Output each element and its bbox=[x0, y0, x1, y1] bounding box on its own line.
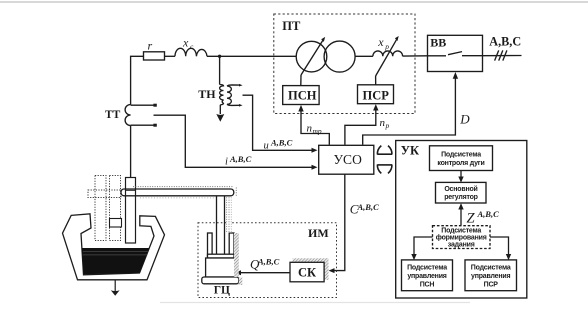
svg-text:р: р bbox=[384, 42, 389, 51]
svg-text:x: x bbox=[377, 35, 384, 49]
svg-text:А,В,С: А,В,С bbox=[489, 35, 521, 49]
svg-text:УК: УК bbox=[401, 143, 419, 157]
svg-text:r: r bbox=[148, 39, 153, 53]
svg-text:Z: Z bbox=[467, 211, 476, 227]
svg-text:задания: задания bbox=[448, 242, 475, 249]
svg-text:Основной: Основной bbox=[444, 185, 477, 193]
svg-text:ТТ: ТТ bbox=[105, 109, 121, 121]
svg-text:x: x bbox=[182, 36, 189, 50]
svg-text:контроля дуги: контроля дуги bbox=[437, 160, 484, 167]
svg-text:Подсистема: Подсистема bbox=[441, 152, 481, 159]
svg-text:Подсистема: Подсистема bbox=[407, 265, 447, 272]
svg-text:А,В,С: А,В,С bbox=[229, 154, 252, 164]
svg-text:ИМ: ИМ bbox=[308, 226, 329, 240]
svg-text:ПСН: ПСН bbox=[420, 281, 435, 288]
svg-text:u: u bbox=[264, 140, 269, 151]
svg-text:D: D bbox=[459, 111, 470, 126]
svg-text:ВВ: ВВ bbox=[430, 36, 446, 50]
svg-text:тр: тр bbox=[313, 127, 322, 136]
svg-text:ПТ: ПТ bbox=[282, 19, 301, 33]
svg-text:А,В,С: А,В,С bbox=[357, 202, 380, 212]
svg-text:СК: СК bbox=[298, 266, 316, 280]
svg-text:А,В,С: А,В,С bbox=[477, 209, 500, 219]
svg-text:регулятор: регулятор bbox=[444, 194, 478, 201]
svg-text:Подсистема: Подсистема bbox=[471, 265, 511, 272]
svg-text:УСО: УСО bbox=[334, 152, 363, 167]
svg-text:Подсистема: Подсистема bbox=[441, 228, 481, 235]
svg-text:р: р bbox=[385, 121, 390, 130]
svg-text:i: i bbox=[225, 156, 228, 167]
svg-text:А,В,С: А,В,С bbox=[270, 137, 293, 147]
svg-text:ПСН: ПСН bbox=[288, 89, 317, 103]
svg-text:управления: управления bbox=[407, 273, 446, 280]
svg-text:формирования: формирования bbox=[436, 235, 487, 242]
svg-text:ТН: ТН bbox=[198, 87, 216, 101]
svg-text:ГЦ: ГЦ bbox=[214, 285, 230, 297]
svg-text:управления: управления bbox=[471, 273, 510, 280]
svg-text:А,В,С: А,В,С bbox=[257, 256, 280, 266]
svg-text:ПСР: ПСР bbox=[484, 281, 499, 288]
svg-text:ПСР: ПСР bbox=[363, 88, 390, 102]
